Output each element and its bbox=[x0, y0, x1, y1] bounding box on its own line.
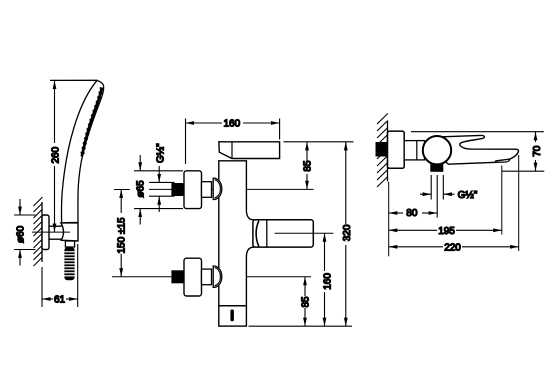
svg-text:G½": G½" bbox=[458, 190, 478, 201]
bottom union dome bbox=[213, 266, 222, 287]
dimension 150 ±15 bbox=[120, 189, 122, 276]
dimension G1/2 (top left) bbox=[149, 166, 175, 212]
valve body circle bbox=[423, 136, 451, 164]
spout centre line bbox=[275, 232, 334, 234]
wall hatching (side view) bbox=[377, 114, 388, 188]
bottom reference line (side view) bbox=[502, 170, 544, 172]
dimension 80 bbox=[389, 212, 438, 214]
top union dome bbox=[213, 178, 222, 199]
wall hatching (hand shower) bbox=[34, 197, 43, 266]
pipe divider bbox=[416, 141, 418, 160]
wall face line (side view) bbox=[387, 121, 389, 181]
outlet slot bbox=[230, 310, 234, 322]
dimension ø65 bbox=[134, 155, 183, 225]
bottom union escutcheon bbox=[184, 258, 202, 296]
corrugated hose bbox=[64, 247, 74, 280]
top union centre line tick bbox=[114, 189, 130, 191]
svg-text:195: 195 bbox=[438, 226, 455, 237]
lever handle (front view) bbox=[219, 142, 280, 159]
bottom outlet bbox=[219, 306, 247, 326]
bottom union pipe bbox=[202, 269, 212, 285]
spout left line bbox=[266, 220, 268, 247]
hose nut bbox=[65, 241, 74, 247]
bracket arm bbox=[49, 226, 62, 239]
bottom union dome inner arc bbox=[215, 268, 221, 286]
svg-text:70: 70 bbox=[532, 145, 543, 157]
top union centre line bbox=[149, 188, 314, 190]
svg-text:G½": G½" bbox=[156, 143, 167, 163]
svg-text:85: 85 bbox=[301, 296, 312, 308]
svg-text:220: 220 bbox=[444, 242, 461, 253]
dimension 160 (top width) bbox=[186, 119, 280, 165]
dimension 160 (right, spout to bottom) bbox=[324, 233, 326, 326]
svg-text:160: 160 bbox=[224, 119, 241, 130]
bottom union centre line right bbox=[214, 276, 311, 278]
dimension ø60 bbox=[14, 199, 36, 266]
black wall nut bbox=[376, 142, 388, 157]
side escutcheon bbox=[388, 131, 405, 168]
G1/2 extension lines (side view) bbox=[431, 175, 443, 218]
dimension 61 bbox=[42, 244, 78, 307]
top union pipe bbox=[202, 182, 212, 198]
left extension line (wall face, side view) bbox=[388, 182, 390, 256]
mixer body bbox=[219, 161, 254, 306]
top union nipple (black) bbox=[171, 183, 185, 196]
wall face line (hand shower) bbox=[41, 202, 43, 262]
dimension 195 bbox=[389, 229, 502, 231]
black outlet below circle bbox=[430, 163, 443, 172]
spout left arc bbox=[256, 221, 259, 247]
dimension 220 bbox=[389, 246, 519, 248]
svg-text:85: 85 bbox=[303, 160, 314, 172]
spray face band (dark dots) bbox=[82, 88, 102, 157]
svg-text:61: 61 bbox=[54, 295, 66, 306]
body/spout beak (side view) bbox=[438, 135, 519, 164]
svg-text:260: 260 bbox=[50, 146, 61, 163]
holder block bbox=[61, 223, 78, 241]
top edge of head + 260 extension line bbox=[50, 79, 98, 81]
bottom union centre line left bbox=[112, 276, 171, 278]
top union dome inner arc bbox=[215, 180, 221, 198]
dimension 85 (bottom right) bbox=[304, 277, 306, 327]
svg-text:80: 80 bbox=[406, 208, 418, 219]
top reference line (lever top, extends right) bbox=[284, 141, 354, 143]
side union pipe bbox=[404, 141, 424, 160]
svg-text:320: 320 bbox=[342, 224, 353, 241]
svg-text:ø60: ø60 bbox=[16, 225, 27, 243]
extension from spout tip bbox=[518, 155, 520, 251]
dimension G1/2 (side view) bbox=[420, 193, 455, 195]
dimension 320 (far right) bbox=[345, 142, 347, 326]
svg-text:ø65: ø65 bbox=[136, 180, 147, 198]
spout (front view) bbox=[253, 220, 313, 247]
bottom reference line bbox=[249, 325, 353, 327]
extension from aerator bbox=[501, 166, 503, 235]
bottom union nipple (black) bbox=[171, 270, 185, 283]
dimension 70 bbox=[535, 132, 537, 172]
lever inner line bbox=[231, 142, 233, 159]
bracket centre line bbox=[32, 231, 70, 233]
dimension 260 bbox=[54, 80, 56, 232]
wall escutcheon ø60 bbox=[42, 215, 49, 250]
dimension 85 (top right) bbox=[306, 142, 308, 190]
shower wand (blade) bbox=[61, 81, 103, 223]
svg-text:150 ±15: 150 ±15 bbox=[117, 217, 128, 254]
svg-text:160: 160 bbox=[323, 273, 334, 290]
aerator bbox=[495, 159, 510, 162]
top union escutcheon bbox=[184, 171, 202, 209]
top reference line (side view) bbox=[411, 131, 544, 133]
